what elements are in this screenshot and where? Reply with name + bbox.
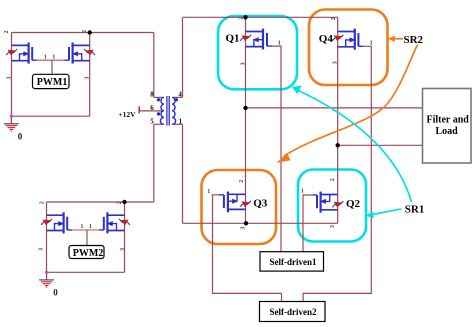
svg-text:Self-driven2: Self-driven2 [270, 307, 317, 317]
svg-text:0: 0 [53, 287, 58, 297]
box PWM1 [33, 74, 70, 88]
svg-text:1: 1 [207, 189, 210, 195]
junction dot bottom rail / Q3 [244, 221, 248, 225]
SR2 curved arrow to Q3 [284, 45, 418, 157]
highlight box Q1 (cyan) [218, 16, 297, 89]
wire PWM1 left drop [11, 33, 13, 117]
svg-text:3: 3 [330, 225, 336, 228]
wire Q3 gate to Self-driven2 [213, 195, 282, 302]
wire PWM1 bottom rail [12, 115, 90, 117]
svg-text:2: 2 [4, 31, 10, 34]
svg-text:3: 3 [6, 77, 12, 80]
svg-text:2: 2 [82, 30, 88, 33]
wire transformer primary bottom [153, 124, 155, 202]
svg-text:PWM1: PWM1 [37, 77, 68, 88]
highlight box Q4 (orange) [309, 10, 388, 86]
wire secondary top riser [182, 17, 184, 97]
wire bottom rail to Q3 Q2 [183, 222, 338, 224]
ground (PWM1) [4, 115, 19, 132]
junction dot PWM2 rail [122, 200, 126, 204]
wire stub pin4 [172, 96, 182, 98]
highlight box Q2 (cyan) [298, 170, 366, 242]
svg-text:2: 2 [39, 201, 45, 204]
svg-text:3: 3 [241, 62, 247, 65]
wire stub pin5 [154, 123, 164, 125]
transistor M2 (PWM1 right) [64, 43, 95, 64]
ground (PWM2) [39, 271, 54, 288]
transistor Q1 [240, 29, 272, 50]
svg-text:0: 0 [18, 131, 23, 141]
wire Q2 gate to Self-driven1 [303, 195, 312, 252]
svg-text:1: 1 [80, 224, 83, 230]
svg-text:2: 2 [239, 17, 245, 20]
wire Q4 Q2 column [337, 17, 339, 223]
svg-text:1: 1 [278, 40, 281, 46]
junction dot PWM1 rail [88, 30, 92, 34]
svg-text:2: 2 [239, 180, 245, 183]
svg-text:1: 1 [370, 41, 373, 47]
wire PWM1 top rail [12, 32, 154, 34]
transformer T1 phase dots [157, 98, 160, 101]
wire Q1 Q3 column [245, 17, 247, 223]
junction dot node A [243, 106, 247, 110]
svg-text:SR1: SR1 [405, 204, 425, 216]
svg-text:Q4: Q4 [319, 33, 334, 45]
box Self-driven1 [260, 252, 324, 271]
wire node B to filter [338, 144, 423, 146]
transistor Q3 [219, 192, 251, 213]
wire PWM2 gate bus [72, 229, 99, 231]
wire +12V to pin6 [139, 110, 164, 112]
wire Q4 gate to Self-driven2 [303, 46, 371, 301]
svg-text:Self-driven1: Self-driven1 [270, 257, 317, 267]
wire PWM2 bottom rail [47, 271, 125, 273]
svg-text:Q1: Q1 [226, 32, 240, 44]
box PWM2 [69, 246, 104, 259]
wire PWM1 gate drop to box [51, 60, 53, 74]
wire top rail to Q1 Q4 [183, 16, 338, 18]
svg-text:1: 1 [52, 55, 55, 61]
svg-text:Load: Load [436, 126, 459, 137]
transformer T1 windings [160, 97, 175, 124]
svg-text:3: 3 [332, 61, 338, 64]
wire PWM2 top rail [47, 201, 154, 203]
transistor M1 (PWM1 left) [6, 43, 37, 64]
svg-text:Q2: Q2 [346, 198, 361, 210]
svg-text:2: 2 [330, 178, 336, 181]
svg-text:6: 6 [150, 104, 154, 112]
wire PWM1 gate bus [37, 59, 64, 61]
box Filter and Load [423, 89, 472, 164]
wire Q1 gate to Self-driven1 [272, 46, 281, 252]
svg-text:2: 2 [117, 201, 123, 204]
svg-text:5: 5 [150, 118, 154, 126]
power symbol +12V [138, 106, 140, 113]
junction dot node B [336, 143, 340, 147]
svg-text:PWM2: PWM2 [73, 248, 104, 259]
wire stub pin1 [172, 123, 182, 125]
box Self-driven2 [260, 302, 326, 322]
svg-text:4: 4 [178, 90, 182, 98]
wire node A to filter [246, 107, 423, 109]
svg-text:1: 1 [44, 55, 47, 61]
SR1 curved arrow to Q1 [298, 90, 412, 202]
svg-text:Q3: Q3 [253, 198, 268, 210]
svg-text:3: 3 [241, 227, 247, 230]
wire transformer primary top [153, 33, 155, 98]
svg-text:1: 1 [301, 189, 304, 195]
wire PWM2 left drop [46, 202, 48, 272]
transformer T1 core [167, 96, 169, 126]
svg-text:1: 1 [89, 224, 92, 230]
wire PWM2 gate drop to box [86, 230, 88, 246]
transistor Q4 [332, 29, 363, 50]
svg-text:3: 3 [39, 248, 45, 251]
transistor Q2 [312, 192, 343, 213]
svg-text:Filter and: Filter and [427, 115, 470, 126]
wire PWM2 right drop [124, 202, 126, 272]
svg-text:2: 2 [331, 17, 337, 20]
svg-text:3: 3 [84, 77, 90, 80]
svg-text:+12V: +12V [118, 110, 136, 119]
svg-text:3: 3 [120, 248, 126, 251]
highlight box Q3 (orange) [202, 170, 277, 244]
junction dot top rail / Q1 [243, 15, 247, 19]
wire PWM1 right drop [89, 33, 91, 117]
svg-text:8: 8 [150, 90, 154, 98]
transistor M4 (PWM2 right) [99, 212, 130, 233]
wire secondary bottom riser [182, 124, 184, 223]
wire stub pin8 [154, 96, 164, 98]
transistor M3 (PWM2 left) [41, 212, 72, 233]
svg-text:1: 1 [179, 118, 183, 126]
svg-text:SR2: SR2 [404, 34, 424, 46]
